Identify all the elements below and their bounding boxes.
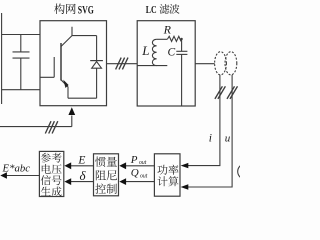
block: 惯量阻尼控制 (inertia damping control)	[94, 154, 119, 196]
resistor R (zigzag)	[168, 36, 182, 41]
arrowhead u into power calc	[181, 184, 189, 189]
svg-text:P: P	[130, 154, 138, 166]
transistor Q1 emitter with arrow	[61, 80, 68, 98]
transistor Q1 (IGBT) gate lead and gate bar	[40, 57, 54, 77]
slash marker on u line	[227, 86, 238, 99]
svg-text:out: out	[140, 173, 148, 179]
svg-text:LC: LC	[146, 4, 157, 16]
svg-text:Q: Q	[131, 167, 139, 179]
transformer T1 (dashed circles)	[215, 52, 227, 75]
transistor Q1 body bar	[60, 43, 62, 81]
wire+arrow: E from 惯量 to 参考	[70, 165, 94, 167]
svg-text:E*abc: E*abc	[1, 163, 30, 174]
inductor L (coil)	[152, 39, 156, 65]
svg-text:δ: δ	[80, 168, 87, 183]
wire: i measurement line	[188, 75, 220, 166]
svg-text:SVG: SVG	[78, 4, 94, 16]
wire: u measurement line	[188, 75, 232, 187]
block: 功率计算 (power calculation)	[154, 154, 180, 196]
transistor Q1 collector	[61, 27, 72, 47]
svg-text:out: out	[139, 160, 147, 166]
block: 参考电压信号生成 (reference voltage signal generation)	[39, 151, 63, 196]
arrowhead i into power calc	[181, 163, 189, 168]
wire: DC bus left vertical	[1, 13, 3, 104]
block: grid-forming SVG converter box	[40, 21, 107, 106]
svg-text:E: E	[77, 154, 85, 166]
node: R-C junction	[180, 38, 182, 40]
wire: LC output to transformer	[195, 63, 215, 65]
wire: collector to diode top	[72, 36, 97, 61]
wire: DC bus bottom	[2, 89, 40, 91]
grid source circle (clipped at edge)	[238, 164, 253, 179]
wire: modulation signal into inverter	[0, 116, 72, 127]
capacitor Cdc (DC-link capacitor)	[13, 35, 30, 90]
wire: diode anode down and across to emitter	[68, 68, 97, 98]
svg-text:L: L	[141, 43, 149, 58]
arrowhead up into inverter box	[68, 107, 75, 115]
slash marker on i line	[215, 86, 226, 99]
svg-text:R: R	[163, 23, 172, 37]
diode D1 (freewheeling)	[90, 60, 103, 62]
svg-text:i: i	[209, 133, 212, 145]
label 构网 SVG	[54, 3, 65, 14]
svg-text:C: C	[168, 47, 176, 59]
wire+arrow: Qout from 功率 to 惯量	[126, 181, 155, 183]
3-phase slash marker	[116, 58, 128, 70]
wire: LC internal bottom feed	[137, 65, 167, 67]
wire+arrow: delta from 惯量 to 参考	[70, 181, 94, 183]
block: LC filter box	[137, 21, 195, 106]
wire+arrow: E*abc output of 参考 block	[6, 175, 39, 177]
wire+arrow: Pout from 功率 to 惯量	[126, 165, 155, 167]
slash marker on modulation wire	[45, 121, 58, 133]
wire: inverter AC output to LC filter	[107, 63, 138, 65]
wire: DC bus top	[2, 34, 40, 36]
capacitor C	[176, 39, 187, 106]
svg-text:u: u	[225, 133, 231, 145]
